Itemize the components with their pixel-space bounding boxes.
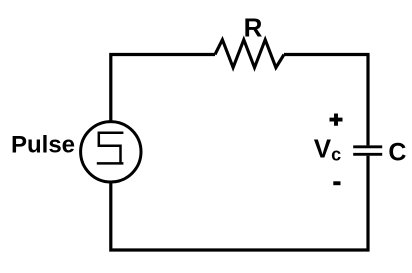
pulse source circle bbox=[81, 122, 141, 182]
minus sign bbox=[333, 181, 340, 185]
svg-text:R: R bbox=[244, 13, 263, 43]
wire top-left: left rail upper segment + top rail to resistor bbox=[111, 55, 215, 122]
svg-text:Pulse: Pulse bbox=[11, 131, 75, 158]
wire bottom: right rail below capacitor + bottom rail + left rail lower segment bbox=[111, 156, 368, 250]
pulse waveform glyph bbox=[97, 133, 124, 164]
resistor R bbox=[215, 40, 284, 68]
plus sign bbox=[330, 114, 343, 126]
capacitor C top plate bbox=[353, 145, 382, 148]
capacitor C bottom plate bbox=[353, 153, 382, 156]
svg-text:Vc: Vc bbox=[314, 134, 341, 165]
svg-text:C: C bbox=[388, 139, 406, 167]
wire top-right: top rail from resistor + right rail down to capacitor bbox=[284, 55, 368, 146]
